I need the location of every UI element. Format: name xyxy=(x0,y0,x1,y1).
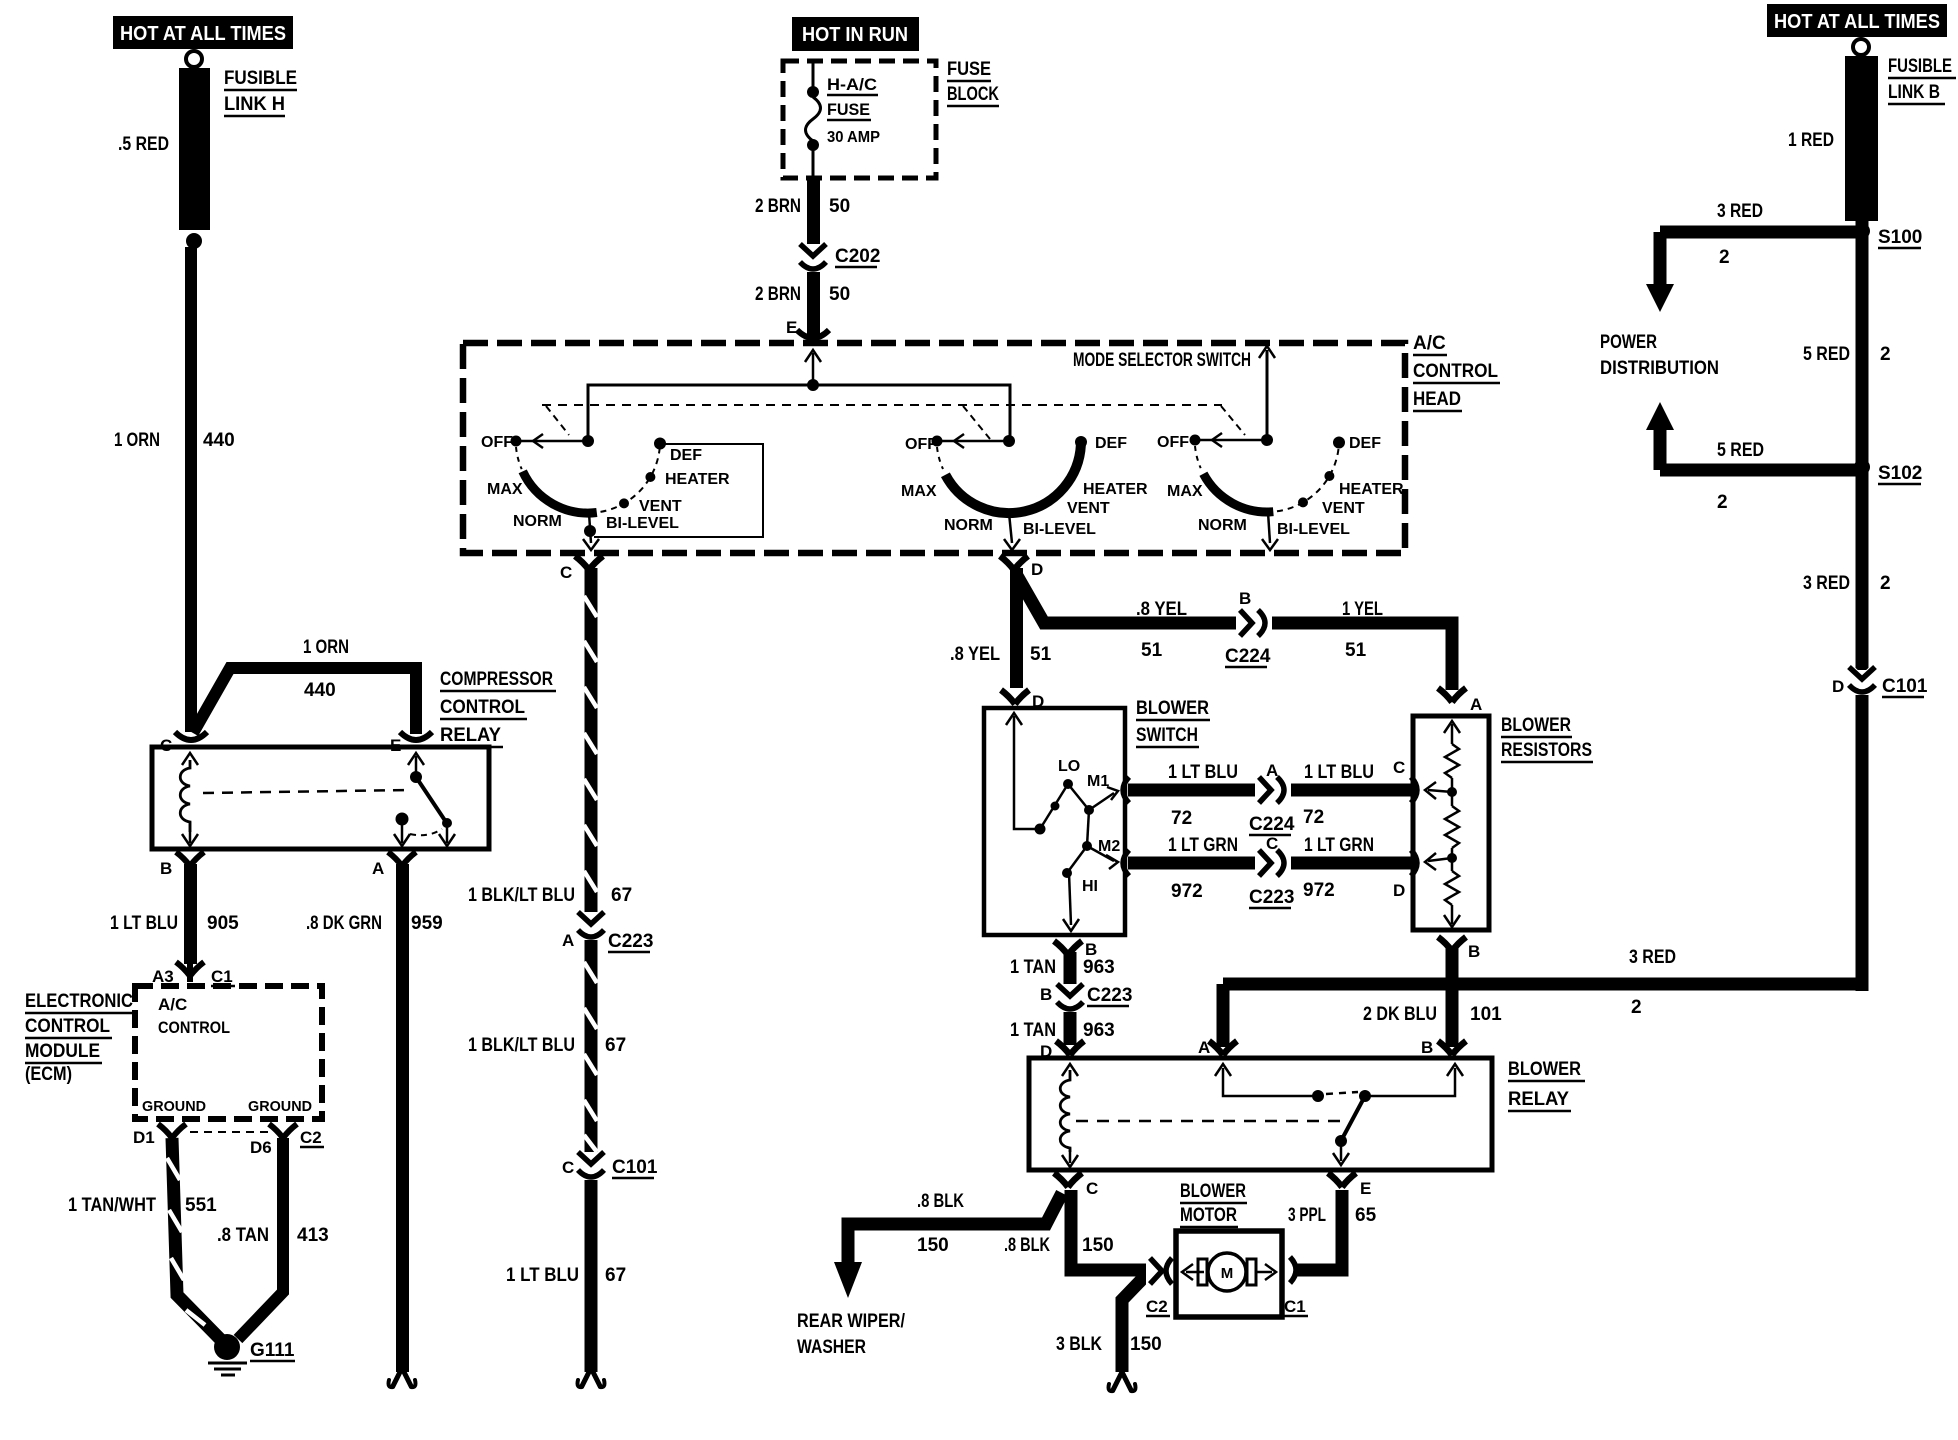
svg-text:C224: C224 xyxy=(1249,814,1295,835)
label FUSIBLE LINK H xyxy=(224,68,297,116)
terminal E connector (relay) xyxy=(400,732,432,740)
mode switch 2 OFF-MAX dashed arc xyxy=(937,447,943,469)
svg-text:150: 150 xyxy=(1130,1334,1162,1355)
terminal D connector (blower relay) xyxy=(1056,1041,1084,1055)
svg-text:D6: D6 xyxy=(250,1138,272,1157)
svg-text:51: 51 xyxy=(1345,640,1367,661)
mode switch 3 pivot dot xyxy=(1261,434,1273,446)
svg-text:1 YEL: 1 YEL xyxy=(1342,599,1383,620)
resistor tap C dot xyxy=(1447,787,1457,797)
wire .8 TAN 413 xyxy=(238,1138,283,1339)
mode switch 2 wiper to OFF xyxy=(940,440,1009,443)
wire 1 LT BLU 72 (switch M1 to resistor C) xyxy=(1128,784,1413,797)
svg-text:C: C xyxy=(1266,834,1278,853)
svg-text:A: A xyxy=(562,931,574,950)
svg-text:2 DK BLU: 2 DK BLU xyxy=(1363,1004,1437,1025)
power label HOT AT ALL TIMES (left) xyxy=(113,16,293,49)
svg-text:BI-LEVEL: BI-LEVEL xyxy=(1277,521,1350,538)
terminal A connector (relay) xyxy=(388,852,416,866)
svg-text:LINK H: LINK H xyxy=(224,94,285,115)
blower switch D pin arrow xyxy=(1006,713,1022,725)
svg-text:BI-LEVEL: BI-LEVEL xyxy=(606,515,679,532)
svg-text:D1: D1 xyxy=(133,1128,155,1147)
dashed tie between D1 and D6 xyxy=(190,1131,268,1133)
link LO-M1 xyxy=(1068,784,1089,810)
wire 3 BLK 150 branch xyxy=(1122,1273,1148,1372)
svg-text:C223: C223 xyxy=(608,931,653,952)
mode switch 1 HEATER contact dot xyxy=(645,472,655,482)
blower relay A pin arrow and line xyxy=(1215,1064,1231,1076)
battery terminal ring (fusible link B) xyxy=(1853,39,1869,55)
HI output line and arrow xyxy=(1069,873,1071,925)
svg-text:1 ORN: 1 ORN xyxy=(114,430,160,451)
power distribution up arrow xyxy=(1646,402,1674,430)
svg-text:A: A xyxy=(372,859,384,878)
svg-text:POWER: POWER xyxy=(1600,332,1657,353)
svg-text:A/C: A/C xyxy=(158,995,187,1014)
svg-text:OFF: OFF xyxy=(481,434,513,451)
svg-text:2: 2 xyxy=(1719,247,1730,268)
svg-text:NORM: NORM xyxy=(513,513,562,530)
svg-text:NORM: NORM xyxy=(944,517,993,534)
svg-text:OFF: OFF xyxy=(1157,434,1189,451)
svg-text:1 LT GRN: 1 LT GRN xyxy=(1168,835,1238,856)
svg-text:963: 963 xyxy=(1083,1020,1115,1041)
svg-text:.8 BLK: .8 BLK xyxy=(917,1191,964,1212)
svg-text:BLOWER: BLOWER xyxy=(1508,1059,1581,1080)
svg-text:ELECTRONIC: ELECTRONIC xyxy=(25,991,133,1012)
connector A C223 (on striped wire) xyxy=(578,912,604,937)
link M1-M2 xyxy=(1087,810,1089,846)
svg-text:HEAD: HEAD xyxy=(1413,389,1461,410)
connector C202 xyxy=(800,244,826,269)
svg-text:C101: C101 xyxy=(1882,676,1928,697)
blower switch box xyxy=(984,708,1125,935)
svg-text:COMPRESSOR: COMPRESSOR xyxy=(440,669,553,690)
svg-text:C101: C101 xyxy=(612,1157,658,1178)
svg-text:1 LT BLU: 1 LT BLU xyxy=(506,1265,579,1286)
svg-text:CONTROL: CONTROL xyxy=(158,1018,230,1037)
connector C C101 (on center wire) xyxy=(578,1152,604,1177)
motor armature circle xyxy=(1208,1253,1246,1291)
svg-text:972: 972 xyxy=(1171,881,1203,902)
blower resistors box xyxy=(1413,716,1489,930)
svg-text:2: 2 xyxy=(1717,492,1728,513)
splice S100 dot xyxy=(1854,223,1870,239)
motor brush right xyxy=(1247,1259,1256,1285)
svg-text:1 BLK/LT BLU: 1 BLK/LT BLU xyxy=(468,885,575,906)
junction dot below fusible link H xyxy=(186,233,202,249)
svg-text:FUSE: FUSE xyxy=(827,100,870,119)
label BLOWER SWITCH xyxy=(1136,698,1210,747)
mode switch 3 position dashed arc xyxy=(1277,443,1339,512)
stripes on 1 TAN/WHT wire xyxy=(167,1158,205,1325)
wire .8 DK GRN open end hook xyxy=(393,1368,411,1386)
svg-text:RESISTORS: RESISTORS xyxy=(1501,740,1592,761)
blower relay actuation dashed link xyxy=(1076,1120,1348,1123)
fuse feed wire from box top xyxy=(812,61,815,88)
M1 output arrow xyxy=(1089,793,1114,810)
relay actuation dashed link xyxy=(203,790,410,793)
terminal D connector (below head, to blower switch) xyxy=(1000,556,1028,570)
svg-text:HOT AT ALL TIMES: HOT AT ALL TIMES xyxy=(1774,11,1940,33)
terminal D1 connector xyxy=(158,1124,186,1138)
connector C C223 (on LT GRN wire) xyxy=(1255,850,1291,876)
mode switch 1 VENT contact dot xyxy=(619,498,629,508)
svg-text:BLOCK: BLOCK xyxy=(947,84,999,105)
svg-text:WASHER: WASHER xyxy=(797,1337,866,1358)
svg-text:D: D xyxy=(1031,560,1043,579)
svg-text:VENT: VENT xyxy=(1067,500,1110,517)
resistor R2 xyxy=(1451,792,1454,806)
fuse block dashed box xyxy=(783,61,936,178)
mode switch 2 DEF contact dot xyxy=(1075,436,1087,448)
contact LO dot xyxy=(1063,779,1073,789)
wire 1 LT GRN 972 (switch M2 to resistor D) xyxy=(1128,857,1413,870)
svg-text:.5 RED: .5 RED xyxy=(118,134,169,155)
mode switch 1 vacuum box outline xyxy=(594,444,763,537)
mode switch 3 wiper travel arc (thick) xyxy=(1203,474,1273,512)
tap C arrow to edge xyxy=(1428,790,1452,792)
svg-text:DEF: DEF xyxy=(1095,435,1127,452)
wire .8 BLK 150 to blower motor xyxy=(1071,1190,1148,1270)
svg-text:HI: HI xyxy=(1082,878,1098,895)
svg-text:51: 51 xyxy=(1030,644,1052,665)
blower relay armature xyxy=(1342,1096,1365,1139)
mode switch 2 wiper travel arc (thick) xyxy=(945,445,1081,513)
mode switch 1 DEF contact dot xyxy=(654,438,666,450)
svg-text:.8 TAN: .8 TAN xyxy=(217,1225,269,1246)
wire .8 DK GRN 959 xyxy=(396,864,409,1372)
svg-text:MAX: MAX xyxy=(487,481,523,498)
svg-text:72: 72 xyxy=(1171,808,1192,829)
svg-text:HEATER: HEATER xyxy=(1083,481,1148,498)
blower relay contact dot (A side) xyxy=(1312,1090,1324,1102)
mode switch 1 OFF-MAX dashed arc xyxy=(516,447,522,469)
linkage diagonal (switch 3) xyxy=(1221,406,1245,435)
terminal C connector (relay) xyxy=(175,732,207,740)
svg-text:413: 413 xyxy=(297,1225,329,1246)
wire 1 TAN 963 (upper) xyxy=(1064,952,1077,984)
connector A C224 (on LT BLU wire) xyxy=(1255,777,1291,803)
wire .8 YEL 51 vertical xyxy=(1010,568,1023,688)
motor inner arrow (left) xyxy=(1186,1271,1204,1274)
terminal E connector (A/C control head) xyxy=(797,330,829,338)
svg-text:CONTROL: CONTROL xyxy=(440,697,525,718)
blower relay coil bottom arrow xyxy=(1069,1148,1072,1163)
svg-text:GROUND: GROUND xyxy=(248,1098,312,1115)
wire 1 LT BLU 905 xyxy=(184,864,197,964)
mode switch 3 HEATER contact dot xyxy=(1324,471,1334,481)
svg-text:972: 972 xyxy=(1303,880,1335,901)
svg-text:NORM: NORM xyxy=(1198,517,1247,534)
svg-text:C: C xyxy=(160,736,172,755)
svg-text:LINK B: LINK B xyxy=(1888,82,1940,103)
connector B C223 (on 1 TAN wire) xyxy=(1057,984,1083,1009)
svg-text:3 RED: 3 RED xyxy=(1717,201,1763,222)
svg-text:E: E xyxy=(1360,1179,1371,1198)
svg-text:RELAY: RELAY xyxy=(440,725,501,746)
fusible link B body xyxy=(1845,56,1878,221)
mode switch 3 OFF contact dot xyxy=(1190,435,1201,446)
svg-text:MAX: MAX xyxy=(1167,483,1203,500)
fusible link H body xyxy=(179,68,210,230)
svg-text:C224: C224 xyxy=(1225,646,1271,667)
wire 3 BLK open end hook xyxy=(1113,1372,1131,1390)
svg-text:(ECM): (ECM) xyxy=(25,1064,72,1085)
mode switch 3 OFF-MAX dashed arc xyxy=(1195,446,1201,468)
svg-text:1 ORN: 1 ORN xyxy=(303,637,349,658)
ground G111 dot xyxy=(214,1334,240,1360)
svg-text:REAR WIPER/: REAR WIPER/ xyxy=(797,1311,906,1332)
relay E pin arrow xyxy=(408,753,424,765)
svg-text:HOT IN RUN: HOT IN RUN xyxy=(802,24,908,46)
power label HOT IN RUN xyxy=(792,17,919,51)
wire 1 LT BLU open end hook xyxy=(582,1368,600,1386)
resistor R3 xyxy=(1451,858,1454,871)
blower relay armature end dot xyxy=(1335,1135,1347,1147)
power label HOT AT ALL TIMES (right) xyxy=(1767,4,1947,37)
wire 3 RED 2 (S102 to C101) xyxy=(1856,467,1869,670)
svg-text:A/C: A/C xyxy=(1413,333,1446,354)
resistor B pin arrow xyxy=(1451,905,1454,924)
svg-text:65: 65 xyxy=(1355,1205,1377,1226)
wire 1 ORN 440 vertical xyxy=(185,247,197,732)
svg-text:OFF: OFF xyxy=(905,436,937,453)
svg-text:C223: C223 xyxy=(1087,985,1132,1006)
svg-text:963: 963 xyxy=(1083,957,1115,978)
wire 5 RED 2 (S100-S102) xyxy=(1856,221,1869,467)
svg-text:HOT AT ALL TIMES: HOT AT ALL TIMES xyxy=(120,23,286,45)
mode switch 1 wiper travel arc (thick) xyxy=(523,471,597,513)
svg-text:1 TAN: 1 TAN xyxy=(1010,957,1056,978)
svg-text:3 BLK: 3 BLK xyxy=(1056,1334,1102,1355)
splice S102 dot xyxy=(1854,459,1870,475)
terminal A connector (blower relay) xyxy=(1209,1041,1237,1055)
battery terminal ring (fusible link H) xyxy=(186,51,202,67)
label BLOWER MOTOR xyxy=(1180,1181,1247,1227)
wire 1 BLK/LT BLU 67 (lower striped) xyxy=(585,940,598,1152)
svg-text:C: C xyxy=(562,1158,574,1177)
svg-text:72: 72 xyxy=(1303,807,1324,828)
mode switch 3 output wire and arrow xyxy=(1268,512,1270,543)
compressor control relay U1 box xyxy=(152,747,489,849)
wire 3 RED 2 (C101 down to blower relay feed) xyxy=(1856,695,1869,991)
svg-text:2: 2 xyxy=(1631,997,1642,1018)
wiper arm mid dot xyxy=(1051,802,1060,811)
svg-text:CONTROL: CONTROL xyxy=(1413,361,1498,382)
svg-text:440: 440 xyxy=(304,680,336,701)
label BLOWER RELAY xyxy=(1508,1059,1585,1111)
wire 5 RED 2 to power distribution (S102) xyxy=(1660,464,1856,477)
blower relay contact dot (B side) xyxy=(1359,1090,1371,1102)
svg-text:A: A xyxy=(1470,695,1482,714)
svg-text:SWITCH: SWITCH xyxy=(1136,725,1198,746)
mode switch 1 output wire and arrow xyxy=(589,513,591,543)
svg-text:LO: LO xyxy=(1058,758,1080,775)
svg-text:B: B xyxy=(1040,985,1052,1004)
terminal B connector (blower relay) xyxy=(1438,1041,1466,1055)
terminal C connector (below head, striped wire) xyxy=(575,556,603,570)
svg-text:DEF: DEF xyxy=(670,447,702,464)
svg-text:A: A xyxy=(1266,761,1278,780)
svg-text:HEATER: HEATER xyxy=(1339,481,1404,498)
svg-text:C2: C2 xyxy=(300,1128,322,1147)
svg-text:67: 67 xyxy=(611,885,632,906)
svg-text:CONTROL: CONTROL xyxy=(25,1016,110,1037)
svg-text:MODE SELECTOR SWITCH: MODE SELECTOR SWITCH xyxy=(1073,350,1251,371)
ECM U2 dashed box xyxy=(135,986,322,1119)
mode switch 1 position dashed arc xyxy=(601,444,661,512)
mode switch 1 pivot dot xyxy=(582,435,594,447)
svg-text:E: E xyxy=(390,736,401,755)
svg-text:B: B xyxy=(1421,1038,1433,1057)
svg-text:1 RED: 1 RED xyxy=(1788,130,1834,151)
svg-text:M2: M2 xyxy=(1098,838,1120,855)
svg-text:DISTRIBUTION: DISTRIBUTION xyxy=(1600,358,1719,379)
terminal B connector (blower resistors bottom) xyxy=(1438,937,1466,951)
terminal B connector (relay) xyxy=(176,852,204,866)
svg-text:A: A xyxy=(1198,1038,1210,1057)
motor output socket (C1 side) xyxy=(1290,1257,1296,1283)
resistor edge socket (C) xyxy=(1411,777,1417,803)
mode switch 2 pivot dot xyxy=(1003,435,1015,447)
blower relay coil xyxy=(1060,1070,1070,1152)
svg-text:30 AMP: 30 AMP xyxy=(827,129,880,146)
svg-text:C1: C1 xyxy=(1284,1297,1306,1316)
terminal A connector (blower resistors top) xyxy=(1438,688,1466,702)
svg-text:MOTOR: MOTOR xyxy=(1180,1205,1237,1226)
tap D arrow to edge xyxy=(1428,858,1452,861)
svg-text:VENT: VENT xyxy=(639,498,682,515)
svg-text:B: B xyxy=(1468,942,1480,961)
svg-text:551: 551 xyxy=(185,1195,217,1216)
label BLOWER RESISTORS xyxy=(1501,715,1593,762)
svg-text:1 LT BLU: 1 LT BLU xyxy=(1304,762,1374,783)
svg-text:67: 67 xyxy=(605,1035,626,1056)
M2 output arrow xyxy=(1087,846,1114,861)
svg-text:2: 2 xyxy=(1880,573,1891,594)
svg-text:S102: S102 xyxy=(1878,463,1922,484)
wire 1 LT BLU 67 (bottom) xyxy=(585,1180,598,1372)
svg-text:B: B xyxy=(160,859,172,878)
wire 2 BRN 50 (upper) xyxy=(807,176,820,244)
svg-text:D: D xyxy=(1832,677,1844,696)
svg-text:1 BLK/LT BLU: 1 BLK/LT BLU xyxy=(468,1035,575,1056)
contact M1 dot xyxy=(1084,805,1094,815)
svg-text:FUSIBLE: FUSIBLE xyxy=(1888,56,1952,77)
wire .8 YEL / 1 YEL 51 branch to resistors xyxy=(1016,574,1452,690)
ground G111 symbol xyxy=(208,1363,247,1375)
svg-text:3 RED: 3 RED xyxy=(1803,573,1850,594)
svg-text:GROUND: GROUND xyxy=(142,1098,206,1115)
svg-text:FUSE: FUSE xyxy=(947,59,991,80)
svg-text:BLOWER: BLOWER xyxy=(1501,715,1571,736)
svg-text:.8 YEL: .8 YEL xyxy=(1136,599,1187,620)
label ELECTRONIC CONTROL MODULE (ECM) xyxy=(25,991,136,1085)
relay contact travel dashed arc xyxy=(410,829,442,835)
A/C control head dashed box xyxy=(463,343,1405,553)
terminal C connector (blower relay bottom) xyxy=(1054,1173,1082,1187)
mode switch 3 wiper to OFF xyxy=(1198,439,1267,442)
wire 1 TAN 963 (lower) xyxy=(1064,1012,1077,1045)
svg-text:DEF: DEF xyxy=(1349,435,1381,452)
svg-text:M: M xyxy=(1221,1265,1234,1282)
wire 1 TAN/WHT 551 xyxy=(172,1138,224,1343)
wire 3 RED 2 horizontal to relay A xyxy=(1223,978,1862,991)
svg-text:BI-LEVEL: BI-LEVEL xyxy=(1023,521,1096,538)
svg-text:1 TAN/WHT: 1 TAN/WHT xyxy=(68,1195,156,1216)
svg-text:5 RED: 5 RED xyxy=(1717,440,1764,461)
resistor R1 xyxy=(1445,744,1459,778)
svg-text:5 RED: 5 RED xyxy=(1803,344,1850,365)
svg-text:51: 51 xyxy=(1141,640,1163,661)
svg-text:S100: S100 xyxy=(1878,227,1922,248)
svg-text:905: 905 xyxy=(207,913,239,934)
svg-text:RELAY: RELAY xyxy=(1508,1089,1569,1110)
relay common contact dot xyxy=(410,771,422,783)
svg-text:G111: G111 xyxy=(250,1340,295,1361)
svg-text:D: D xyxy=(1393,881,1405,900)
linkage diagonal (switch 2) xyxy=(963,406,990,439)
svg-text:440: 440 xyxy=(203,430,235,451)
blower switch wiper feed line xyxy=(1014,716,1038,829)
svg-text:MAX: MAX xyxy=(901,483,937,500)
wire 3 PPL 65 xyxy=(1296,1190,1342,1270)
wire 2 BRN 50 (lower) xyxy=(807,272,820,337)
svg-text:2 BRN: 2 BRN xyxy=(755,196,801,217)
svg-text:150: 150 xyxy=(917,1235,949,1256)
svg-text:MODULE: MODULE xyxy=(25,1041,100,1062)
svg-text:1 TAN: 1 TAN xyxy=(1010,1020,1056,1041)
svg-text:1 LT BLU: 1 LT BLU xyxy=(1168,762,1238,783)
svg-text:2: 2 xyxy=(1880,344,1891,365)
svg-text:BLOWER: BLOWER xyxy=(1180,1181,1246,1202)
relay A pin arrow xyxy=(401,825,404,843)
label FUSE BLOCK xyxy=(947,59,999,106)
mode switch 3 DEF contact dot xyxy=(1333,437,1345,449)
blower relay E pin arrow xyxy=(1340,1145,1343,1161)
mode switch 2 OFF contact dot xyxy=(932,436,943,447)
mode switch 1 OFF contact dot xyxy=(511,436,522,447)
mode switch 2 output wire and arrow xyxy=(1009,513,1012,543)
label H-A/C FUSE 30 AMP xyxy=(827,75,880,146)
label A/C CONTROL HEAD xyxy=(1413,333,1500,411)
linkage diagonal (switch 1) xyxy=(546,406,569,435)
bus wire across switches 1-2 xyxy=(588,385,1010,441)
ganged-switch dashed linkage line xyxy=(542,404,1222,406)
svg-text:3 PPL: 3 PPL xyxy=(1288,1205,1326,1226)
H-A/C fuse F1 xyxy=(806,86,821,180)
blower relay contact gap dashed xyxy=(1326,1092,1358,1094)
relay armature xyxy=(416,777,446,822)
relay coil pin arrow (C side) xyxy=(182,753,198,765)
svg-text:50: 50 xyxy=(829,196,850,217)
svg-text:.8 BLK: .8 BLK xyxy=(1004,1235,1050,1256)
resistor A pin arrow xyxy=(1444,721,1460,733)
blower relay coil pin arrow xyxy=(1062,1064,1078,1076)
svg-text:3 RED: 3 RED xyxy=(1629,947,1676,968)
svg-text:B: B xyxy=(1239,589,1251,608)
wire .8 BLK 150 to rear wiper/washer xyxy=(848,1193,1062,1262)
mode switch 1 wiper to OFF xyxy=(519,440,588,443)
svg-text:C223: C223 xyxy=(1249,887,1294,908)
terminal D6 connector xyxy=(269,1124,297,1138)
switch edge socket (M2 wire) xyxy=(1123,850,1129,876)
contact HI dot xyxy=(1062,868,1072,878)
svg-text:FUSIBLE: FUSIBLE xyxy=(224,68,297,89)
wire 3 RED 2 to power distribution (S100) xyxy=(1660,226,1856,239)
